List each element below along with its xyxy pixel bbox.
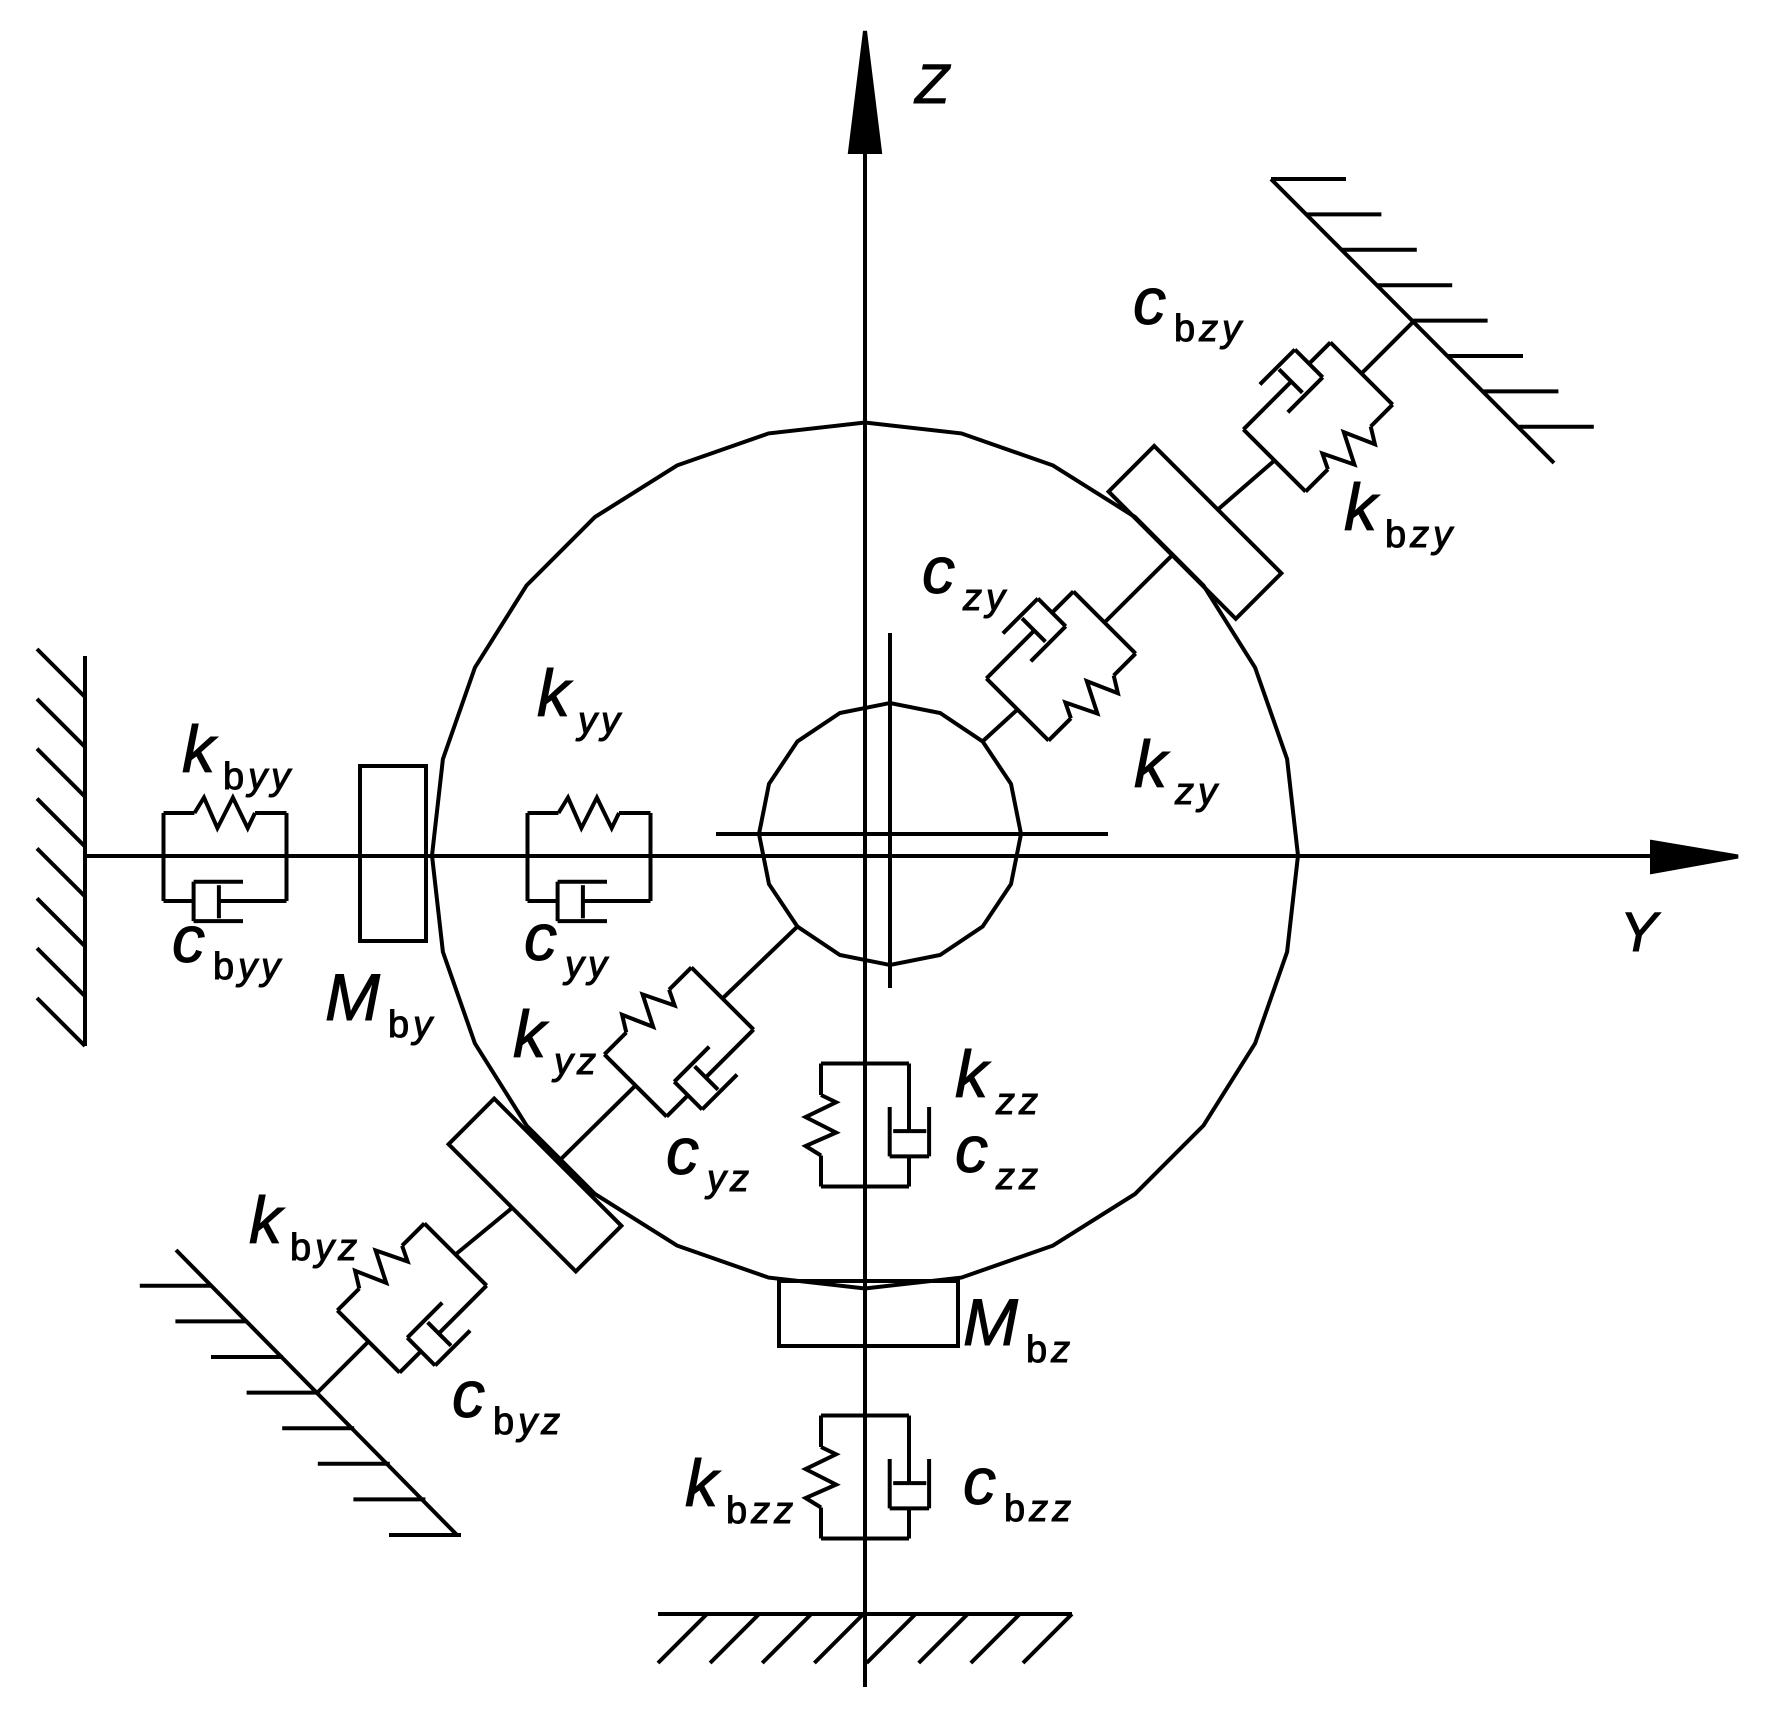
spring-damper unit k_yz/c_yz frame: [604, 967, 753, 1116]
svg-text:kzy: kzy: [1134, 727, 1221, 813]
link: k_byz/c_byz unit to lower-left ground: [318, 1342, 369, 1393]
spring k_byz zigzag: [355, 1246, 408, 1289]
spring k_yy zigzag: [559, 798, 620, 829]
svg-text:kbzz: kbzz: [685, 1446, 797, 1532]
left wall ground line: [83, 656, 87, 1046]
upper-right ground hatching: [1271, 179, 1594, 427]
spring-damper unit k_zy/c_zy frame: [986, 591, 1135, 740]
link: lower-left pad to k_byz/c_byz unit: [456, 1208, 513, 1255]
spring k_bzy zigzag: [1322, 427, 1375, 470]
link: k_zy/c_zy unit to upper-right pad: [1105, 555, 1173, 622]
Z axis arrowhead: [850, 31, 880, 152]
mass block M_by: [360, 766, 426, 941]
link: k_yz/c_yz unit to lower-left pad: [558, 1086, 636, 1163]
journal inner circle: [759, 703, 1021, 965]
damper c_byy dashpot: [194, 882, 287, 921]
damper c_bzz dashpot: [890, 1416, 929, 1509]
spring k_bzz zigzag: [806, 1447, 837, 1508]
journal center crosshair vertical: [888, 633, 892, 988]
lower-left ground hatching: [140, 1286, 461, 1535]
spring-damper unit k_yy/c_yy frame: [528, 813, 651, 901]
svg-text:kyz: kyz: [513, 997, 600, 1083]
svg-text:cyy: cyy: [524, 900, 611, 986]
link: k_bzy/c_bzy unit to upper-right ground: [1362, 322, 1414, 374]
spring-damper unit k_bzy/c_bzy frame: [1243, 342, 1392, 491]
svg-text:cbyy: cbyy: [172, 902, 284, 988]
bearing housing outer circle: [432, 423, 1298, 1289]
damper c_yy dashpot: [558, 882, 651, 921]
Z axis (vertical coordinate axis): [863, 145, 867, 1687]
lower-left diagonal ground line: [176, 1250, 457, 1535]
svg-text:Y: Y: [1620, 900, 1661, 963]
damper c_byz dashpot: [407, 1286, 486, 1366]
spring-damper unit k_bzz/c_bzz frame: [821, 1416, 909, 1539]
spring-damper unit k_byz/c_byz frame: [337, 1223, 486, 1372]
bottom ground hatching: [658, 1614, 1072, 1663]
svg-text:kbyy: kbyy: [182, 712, 294, 798]
svg-text:kyy: kyy: [537, 656, 624, 742]
damper c_yz dashpot: [674, 1030, 753, 1110]
Y axis (horizontal coordinate axis): [85, 854, 1660, 858]
svg-text:kzz: kzz: [955, 1037, 1042, 1123]
upper-right diagonal ground line: [1271, 179, 1554, 463]
svg-text:cbzy: cbzy: [1133, 264, 1245, 350]
spring k_byy zigzag: [195, 798, 256, 829]
damper c_zz dashpot: [890, 1064, 929, 1157]
Y axis arrowhead: [1652, 842, 1738, 872]
spring k_zy zigzag: [1065, 676, 1118, 719]
svg-text:cyz: cyz: [666, 1114, 753, 1200]
bottom ground line: [658, 1612, 1072, 1616]
lower-left tangent pad block: [449, 1099, 622, 1272]
mass block M_bz: [779, 1281, 958, 1346]
link: journal to k_yz/c_yz unit: [723, 927, 798, 999]
svg-text:Mbz: Mbz: [963, 1285, 1074, 1371]
svg-text:Z: Z: [913, 52, 951, 115]
svg-text:cbzz: cbzz: [963, 1444, 1075, 1530]
svg-text:czy: czy: [922, 533, 1009, 619]
journal center crosshair horizontal: [716, 832, 1108, 836]
left wall ground hatching: [37, 649, 85, 1046]
svg-text:czz: czz: [955, 1112, 1042, 1198]
svg-text:kbyz: kbyz: [249, 1183, 361, 1269]
upper-right tangent pad block: [1109, 446, 1282, 619]
link: journal to k_zy/c_zy unit: [983, 710, 1018, 742]
link: upper-right pad to k_bzy/c_bzy unit: [1218, 461, 1275, 510]
damper c_bzy dashpot: [1243, 350, 1322, 430]
spring-damper unit k_zz/c_zz frame: [821, 1064, 909, 1187]
svg-text:kbzy: kbzy: [1344, 470, 1456, 556]
svg-text:cbyz: cbyz: [452, 1357, 564, 1443]
svg-text:Mby: Mby: [325, 960, 436, 1046]
damper c_zy dashpot: [986, 599, 1065, 679]
spring-damper unit k_byy/c_byy frame: [164, 813, 287, 901]
spring k_yz zigzag: [622, 990, 675, 1033]
spring k_zz zigzag: [806, 1095, 837, 1156]
